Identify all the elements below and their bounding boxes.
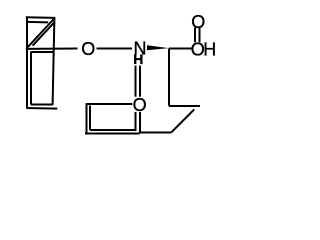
- svg-text:O: O: [133, 95, 147, 115]
- chain bond diagonal: [171, 109, 194, 132]
- carboxyl C=O double line left: [194, 28, 196, 43]
- bond N to O2 double line left: [135, 66, 137, 97]
- ring B bottom outer edge: [26, 107, 57, 110]
- svg-text:H: H: [133, 51, 143, 67]
- svg-text:O: O: [81, 39, 95, 59]
- ring A+B right edge: [53, 18, 55, 105]
- bond stereocenter to carboxyl OH: [169, 48, 192, 50]
- ring B left inner double bond: [30, 52, 32, 105]
- carboxyl C=O double line right: [199, 28, 201, 43]
- side chain horizontal end: [169, 105, 200, 107]
- chain bond from ring C horizontal: [140, 132, 171, 134]
- side chain vertical from stereocenter: [168, 49, 170, 107]
- shared edge inner double bond: [31, 51, 54, 53]
- ring A top edge inner double bond: [27, 21, 48, 24]
- ring C left edge inner double bond: [89, 106, 91, 131]
- bond O1 to N: [97, 48, 133, 50]
- bond O2 to ring C double line left: [135, 112, 137, 130]
- ring A top edge outer: [26, 16, 56, 19]
- bond O2 to ring C double line right: [139, 112, 141, 133]
- bond N to O2 double line right: [139, 66, 141, 97]
- ring B bottom inner double bond: [31, 104, 53, 106]
- wedge bond N to stereocenter: [147, 45, 169, 50]
- ring C bottom edge inner double bond: [90, 129, 137, 131]
- svg-text:H: H: [203, 40, 216, 60]
- svg-text:O: O: [191, 12, 205, 32]
- shared edge outer and bond to O1: [26, 48, 78, 50]
- ring C left edge outer: [86, 104, 88, 134]
- ring A+B left outer edge: [26, 17, 28, 108]
- ring C bottom edge outer: [85, 133, 140, 135]
- ring A diagonal outer: [28, 18, 55, 47]
- ring A diagonal inner double bond: [33, 22, 55, 46]
- ring C top edge: [86, 103, 133, 105]
